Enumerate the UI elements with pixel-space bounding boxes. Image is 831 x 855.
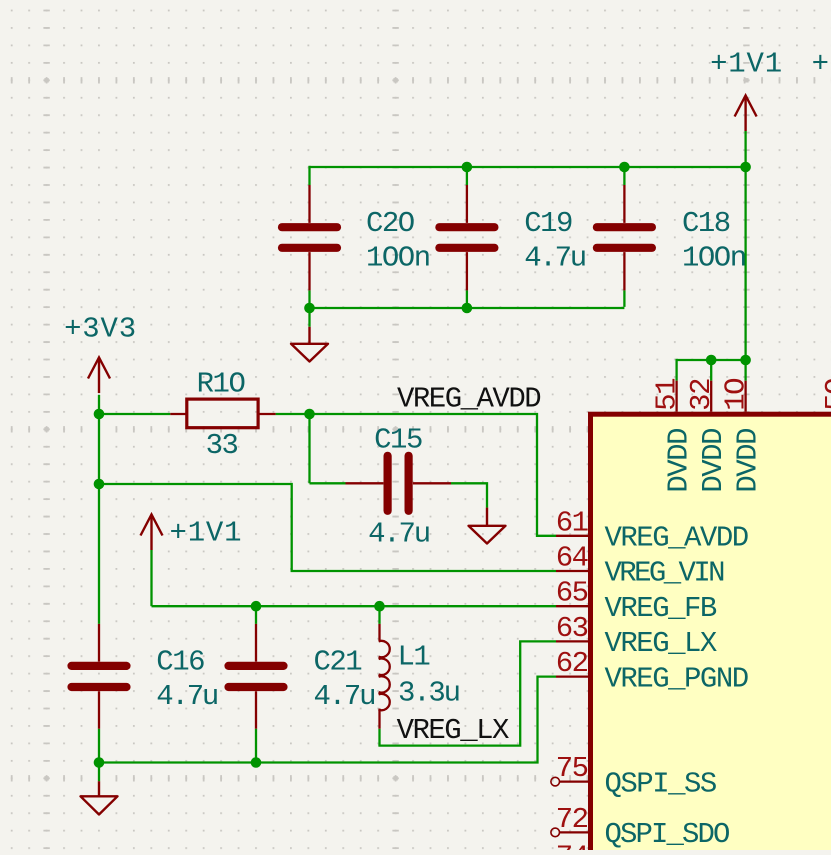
pin 10 DVDD — [744, 381, 746, 412]
svg-text:1OOn: 1OOn — [366, 242, 430, 275]
junction C21 bottom/gnd rail — [251, 757, 262, 768]
svg-text:1OOn: 1OOn — [682, 242, 746, 275]
wire L1 bottom stub — [378, 729, 380, 746]
ground GND below C15 — [486, 508, 488, 526]
wire pin32 stub — [710, 360, 712, 381]
svg-text:QSPI_SS: QSPI_SS — [605, 767, 716, 800]
svg-text:C15: C15 — [374, 424, 422, 457]
wire C20 ground stub — [308, 308, 310, 327]
wire VREG_LX net pin 63 to L1 — [378, 641, 556, 745]
svg-text:DVDD: DVDD — [663, 429, 696, 493]
wire R10 left — [99, 413, 170, 415]
svg-text:5O: 5O — [820, 379, 831, 411]
wire pin51 stub — [675, 359, 677, 381]
svg-text:64: 64 — [556, 542, 588, 575]
wire R10 right to node — [276, 413, 310, 415]
wire left +3V3 rail — [98, 414, 100, 624]
wire C20 bottom stub — [308, 290, 310, 308]
wire C19 bottom stub — [466, 290, 468, 308]
svg-text:74: 74 — [556, 841, 588, 851]
junction L1 top/FB — [374, 601, 385, 612]
power +1V1 (middle) — [150, 515, 152, 551]
pin 32 DVDD — [710, 381, 712, 412]
svg-text:63: 63 — [556, 612, 588, 645]
wire ground rail to pin 62 — [99, 677, 556, 763]
wire C19 top stub — [466, 167, 468, 185]
wire VREG_VIN from +3V3 rail to pin 64 — [99, 484, 556, 571]
svg-text:4.7u: 4.7u — [368, 518, 429, 551]
wire top-pin bus — [677, 359, 746, 361]
pin 62 VREG_PGND — [556, 675, 588, 677]
junction +1V1/top bus — [740, 162, 751, 173]
pin 51 DVDD — [675, 381, 677, 412]
svg-text:+3V3: +3V3 — [812, 48, 831, 81]
junction +3V3/R10 — [94, 409, 105, 420]
junction R10/C15 node — [304, 409, 315, 420]
svg-text:VREG_LX: VREG_LX — [397, 714, 509, 747]
svg-text:C18: C18 — [682, 207, 730, 240]
junction C18 top — [619, 162, 630, 173]
svg-text:C2O: C2O — [366, 207, 414, 240]
pin 64 VREG_VIN — [556, 570, 588, 572]
capacitor C18 100n — [623, 185, 625, 223]
wire +1V1 vertical rail to pin 10 — [744, 131, 746, 381]
pin 65 VREG_FB — [556, 605, 588, 607]
power +1V1 (top right) — [744, 96, 746, 132]
wire bottom capacitor-bank bus GND — [310, 307, 625, 309]
junction C16 bottom/gnd rail — [94, 757, 105, 768]
wire +3V3 drop — [98, 395, 100, 414]
svg-text:4.7u: 4.7u — [524, 242, 585, 275]
junction pin32 top — [706, 355, 717, 366]
svg-text:3.3u: 3.3u — [398, 677, 459, 710]
junction C21 top/FB — [251, 601, 262, 612]
svg-text:C19: C19 — [524, 207, 572, 240]
junction +3V3 rail/VIN — [94, 479, 105, 490]
junction C19 top — [462, 162, 473, 173]
svg-text:+1V1: +1V1 — [710, 48, 783, 81]
svg-text:C16: C16 — [156, 646, 204, 679]
svg-text:1O: 1O — [720, 379, 753, 411]
svg-text:VREG_AVDD: VREG_AVDD — [605, 522, 748, 555]
svg-text:32: 32 — [685, 379, 718, 411]
wire C15 right to ground — [451, 483, 487, 507]
svg-text:4.7u: 4.7u — [156, 680, 217, 713]
wire C15 left horiz — [310, 482, 346, 484]
resistor R10 33 — [170, 413, 187, 415]
ground GND below C16 rail — [98, 781, 100, 796]
pin 75 QSPI_SS (unconnected) — [551, 777, 560, 786]
svg-text:72: 72 — [556, 803, 588, 836]
svg-text:VREG_AVDD: VREG_AVDD — [397, 382, 540, 415]
wire +1V1 mid drop — [150, 550, 152, 606]
svg-text:DVDD: DVDD — [732, 429, 765, 493]
junction C20 bottom/gnd — [304, 303, 315, 314]
svg-text:VREG_FB: VREG_FB — [605, 592, 717, 625]
svg-text:VREG_VIN: VREG_VIN — [605, 557, 725, 590]
capacitor C16 4.7u — [98, 624, 100, 662]
ground GND below C20 bank — [308, 327, 310, 344]
IC U? body (MCU, partially off-canvas) — [591, 414, 831, 855]
svg-text:65: 65 — [556, 577, 588, 610]
capacitor C20 100n — [308, 185, 310, 223]
junction pin10 top — [740, 355, 751, 366]
pin 72 QSPI_SD0 (unconnected) — [551, 828, 560, 837]
wire C16 bottom stub — [98, 729, 100, 763]
svg-text:+3V3: +3V3 — [64, 313, 137, 346]
svg-text:62: 62 — [556, 647, 588, 680]
svg-text:75: 75 — [556, 752, 588, 785]
wire VREG_FB line to pin 65 — [152, 605, 557, 607]
svg-text:VREG_PGND: VREG_PGND — [605, 662, 748, 695]
svg-text:33: 33 — [206, 429, 238, 462]
wire C20 top stub — [308, 166, 310, 185]
inductor L1 3.3u — [378, 624, 380, 640]
svg-text:VREG_LX: VREG_LX — [605, 627, 717, 660]
svg-text:C21: C21 — [314, 646, 362, 679]
svg-text:4.7u: 4.7u — [314, 680, 375, 713]
wire C18 top stub — [623, 167, 625, 185]
wire C18 bottom stub — [623, 290, 625, 307]
capacitor C21 4.7u — [255, 624, 257, 662]
wire node to C15 left — [308, 414, 310, 483]
wire top capacitor-bank bus +1V1 — [310, 166, 746, 168]
wire C21 bottom stub — [255, 729, 257, 763]
wire C16 ground stub — [98, 763, 100, 782]
svg-text:61: 61 — [556, 506, 588, 539]
svg-text:R1O: R1O — [197, 367, 245, 400]
svg-text:QSPI_SDO: QSPI_SDO — [605, 818, 730, 850]
power +3V3 (left) — [98, 358, 100, 394]
junction C19 bottom — [462, 303, 473, 314]
svg-text:51: 51 — [651, 379, 684, 411]
capacitor C15 4.7u — [346, 482, 384, 484]
capacitor C19 4.7u — [466, 185, 468, 223]
wire L1 top stub — [378, 606, 380, 624]
svg-text:DVDD: DVDD — [697, 429, 730, 493]
wire C21 top stub — [255, 606, 257, 624]
wire VREG_AVDD net to pin 61 — [310, 414, 557, 536]
svg-text:+1V1: +1V1 — [170, 517, 243, 550]
pin 63 VREG_LX — [556, 640, 588, 642]
svg-text:L1: L1 — [398, 641, 430, 674]
pin 61 VREG_AVDD — [556, 535, 588, 537]
